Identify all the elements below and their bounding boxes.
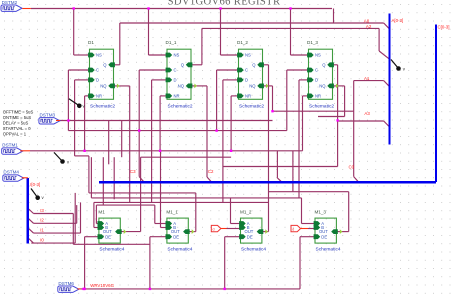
svg-text:Schematic2: Schematic2 (90, 104, 115, 110)
svg-text:I0: I0 (40, 237, 44, 242)
port symbol (to M1_3.B) (291, 225, 301, 231)
stimulus DSTM1 (2, 143, 30, 155)
svg-text:D1_2: D1_2 (237, 40, 248, 45)
net NR (reset) rail from DSTM1 (30, 96, 309, 151)
svg-text:DE: DE (247, 234, 253, 239)
svg-text:STARTVAL = 0: STARTVAL = 0 (3, 126, 32, 131)
svg-text:D: D (174, 78, 177, 83)
svg-text:Schematic4: Schematic4 (241, 247, 266, 253)
svg-text:D: D (245, 78, 248, 83)
net M1 B branch (94, 202, 99, 227)
net clock from DSTM3 and C1 entry (56, 70, 338, 182)
svg-text:NR: NR (315, 94, 321, 99)
svg-text:A3: A3 (364, 111, 370, 116)
svg-text:D: D (315, 78, 318, 83)
svg-text:ONTIME = 5uS: ONTIME = 5uS (3, 115, 32, 120)
svg-text:I3: I3 (40, 208, 44, 213)
svg-text:OPPVAL = 1: OPPVAL = 1 (3, 132, 27, 137)
svg-text:C3: C3 (130, 169, 136, 174)
svg-text:DELAY = 5uS: DELAY = 5uS (3, 121, 29, 126)
subcircuit block M1_3 (Schematic4) (314, 210, 343, 253)
port symbol (to M1_2.B) (211, 225, 221, 231)
parameter text block (3, 110, 34, 137)
svg-text:D1_3: D1_3 (307, 40, 318, 45)
net mid distribution lines (103, 121, 231, 206)
svg-text:Schematic4: Schematic4 (167, 247, 192, 253)
junction at DSTM6 output (82, 288, 84, 290)
net routing rails between register and mux rows (89, 157, 302, 205)
net C0 from NQ of D1_2 (263, 81, 359, 182)
probe marker P1 (69, 99, 86, 109)
svg-text:Schematic2: Schematic2 (309, 104, 334, 110)
subcircuit block D1_1 (Schematic2) (166, 40, 198, 110)
svg-text:M1: M1 (98, 210, 105, 215)
svg-text:D1: D1 (88, 40, 94, 45)
svg-text:OFFTIME = 5uS: OFFTIME = 5uS (3, 110, 34, 115)
svg-text:A[0-3]: A[0-3] (392, 18, 404, 23)
stimulus DSTM2 (1, 0, 31, 11)
net M1_1 B feed (161, 151, 167, 228)
svg-text:C: C (245, 68, 248, 73)
svg-text:DSTM4: DSTM4 (3, 170, 19, 175)
svg-text:DSTM3: DSTM3 (40, 112, 56, 117)
svg-text:C0: C0 (349, 165, 355, 170)
svg-text:Schematic4: Schematic4 (316, 247, 341, 253)
svg-text:Schematic2: Schematic2 (168, 104, 193, 110)
svg-text:C2: C2 (208, 169, 214, 174)
svg-text:C: C (315, 68, 318, 73)
svg-text:DSTM6: DSTM6 (58, 281, 74, 286)
svg-text:NR: NR (245, 94, 251, 99)
svg-text:NS: NS (96, 53, 102, 58)
net NQ of D1_3 (318, 86, 345, 117)
net A3 from Q of D1_3 (333, 65, 390, 167)
svg-text:DSTM1: DSTM1 (2, 143, 18, 148)
svg-text:A2: A2 (366, 24, 372, 29)
svg-text:NQ: NQ (319, 84, 326, 89)
svg-text:DE: DE (321, 234, 327, 239)
svg-text:d: d (292, 227, 294, 231)
net A0 / Q outputs to bus A (114, 23, 390, 65)
svg-text:D1_1: D1_1 (166, 40, 177, 45)
svg-text:SDV1GOV66 REGISTR: SDV1GOV66 REGISTR (168, 0, 281, 7)
svg-text:NS: NS (315, 53, 321, 58)
net A-input branches (96, 198, 315, 224)
svg-text:WRV10V6G: WRV10V6G (90, 283, 114, 288)
net I0-I3 bus taps (29, 193, 150, 244)
svg-text:DE: DE (105, 234, 111, 239)
svg-text:Schematic4: Schematic4 (99, 247, 124, 253)
svg-text:DSTM2: DSTM2 (2, 0, 18, 5)
net WRV10V6G write-enable rail (81, 237, 316, 289)
net A2 from Q of D1_1 (191, 28, 389, 64)
svg-text:d: d (213, 227, 215, 231)
svg-text:DE: DE (173, 234, 179, 239)
net A1 (354, 81, 390, 87)
svg-text:NQ: NQ (178, 84, 185, 89)
svg-text:NS: NS (245, 53, 251, 58)
net NS (set) rail from DSTM2 (31, 9, 334, 56)
net B-input stubs from ports (227, 228, 316, 230)
bus lines (28, 14, 436, 244)
svg-text:C[0-3]: C[0-3] (438, 24, 450, 29)
subcircuit block M1_2 (Schematic4) (239, 210, 268, 253)
subcircuit block D1 (Schematic2) (88, 40, 120, 110)
net C2 from NQ of D1_1 (191, 86, 212, 182)
svg-text:NR: NR (96, 94, 102, 99)
subcircuit block D1_3 (Schematic2) (307, 40, 339, 110)
net D-input feedbacks (75, 80, 309, 202)
svg-text:A1: A1 (364, 76, 370, 81)
svg-text:NS: NS (174, 53, 180, 58)
svg-text:M1_3: M1_3 (315, 210, 327, 215)
subcircuit block M1_1 (Schematic4) (166, 210, 195, 253)
svg-text:C: C (96, 68, 99, 73)
svg-text:A0: A0 (364, 18, 370, 23)
subcircuit block M1 (Schematic4) (98, 210, 127, 253)
svg-text:M1_1: M1_1 (166, 210, 178, 215)
svg-text:I1: I1 (40, 227, 44, 232)
svg-text:D: D (96, 78, 99, 83)
svg-text:NR: NR (174, 94, 180, 99)
svg-text:Schematic2: Schematic2 (239, 104, 264, 110)
probe marker P4 (391, 60, 406, 72)
svg-text:NQ: NQ (249, 84, 256, 89)
svg-text:NQ: NQ (100, 84, 107, 89)
subcircuit block D1_2 (Schematic2) (237, 40, 269, 110)
net Q of D1_2 to M1_2 OUT (262, 65, 269, 232)
net NQ of D1 (114, 86, 130, 202)
svg-text:I[0-3]: I[0-3] (30, 182, 40, 187)
svg-text:M1_2: M1_2 (240, 210, 252, 215)
probe marker P3 (31, 189, 45, 201)
svg-text:I2: I2 (40, 218, 44, 223)
probe marker P2 (54, 152, 70, 164)
stimulus DSTM3 (39, 112, 60, 124)
svg-text:C: C (174, 68, 177, 73)
net M OUT wires rising to rails (120, 151, 348, 232)
stimulus DSTM4 (3, 170, 28, 182)
stimulus DSTM6 (58, 281, 81, 293)
